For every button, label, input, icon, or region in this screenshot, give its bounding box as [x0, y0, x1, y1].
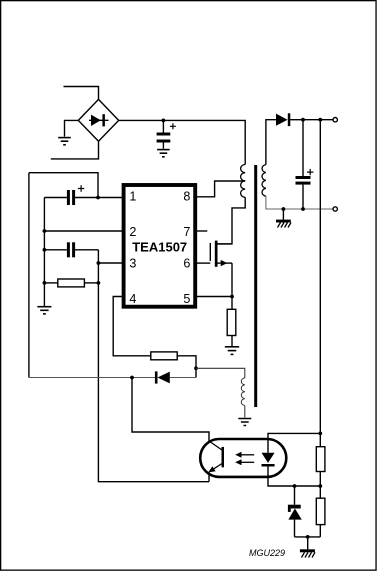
wire LED anode — [268, 433, 320, 452]
svg-text:5: 5 — [183, 292, 190, 306]
bridge rectifier — [78, 99, 118, 141]
transformer T1 primary winding — [241, 165, 246, 198]
wire divider column — [319, 120, 321, 434]
transformer auxiliary winding — [241, 378, 244, 406]
wire demag to aux winding — [196, 368, 245, 378]
wire primary bottom to drain — [217, 197, 245, 244]
node pin3 junction — [97, 261, 101, 265]
chassis ground secondary — [276, 209, 291, 228]
wire left bias column — [43, 198, 45, 307]
wire bottom node — [295, 536, 321, 538]
resistor R5 lower divider — [316, 486, 325, 537]
resistor R4 upper divider — [316, 433, 325, 486]
chassis ground bottom — [300, 537, 315, 558]
wire AC input stub bottom — [51, 141, 99, 159]
svg-text:7: 7 — [183, 225, 190, 239]
diode D1 demag — [132, 371, 196, 383]
svg-text:2: 2 — [129, 225, 136, 239]
wire pin 4 to R2 — [113, 297, 151, 356]
wire pin3 column down — [98, 263, 209, 482]
IC U1 TEA1507 — [124, 185, 196, 307]
resistor R2 — [151, 352, 177, 360]
node divider top — [318, 118, 322, 122]
node R1 left junction — [43, 281, 47, 285]
capacitor C2 Vcc electrolytic — [44, 185, 98, 205]
node pin2 junction — [43, 229, 47, 233]
svg-text:4: 4 — [129, 292, 136, 306]
wire secondary top to diode — [266, 120, 276, 165]
node source junction — [230, 295, 234, 299]
terminal output plus — [333, 118, 337, 122]
wire LED cathode to divider mid — [268, 467, 320, 487]
svg-text:MGU229: MGU229 — [249, 548, 285, 558]
svg-text:6: 6 — [183, 257, 190, 271]
optocoupler U2 — [200, 439, 286, 477]
MOSFET Q1 — [195, 241, 232, 297]
wire pin 5 — [195, 296, 232, 298]
wire bridge left to ground — [65, 120, 79, 136]
svg-text:1: 1 — [129, 190, 136, 204]
ground (aux winding) — [238, 419, 251, 426]
wire pin 7 stub — [195, 230, 208, 232]
svg-text:TEA1507: TEA1507 — [132, 239, 187, 254]
wire D1 node to opto collector — [132, 378, 209, 442]
wire HV rail — [119, 120, 246, 164]
node bottom ground junction — [306, 535, 310, 539]
node bulk cap junction — [162, 119, 166, 123]
node cap C3 left junction — [43, 248, 47, 252]
node output cap bottom — [301, 207, 305, 211]
wire pin 1 — [98, 197, 123, 199]
ground (bulk cap) — [157, 150, 170, 157]
ground (bridge left) — [58, 138, 71, 145]
capacitor C1 bulk electrolytic — [157, 120, 176, 148]
capacitor C4 output electrolytic — [296, 120, 314, 209]
svg-text:3: 3 — [129, 257, 136, 271]
wire opto emitter down — [208, 472, 210, 482]
node output cap top — [301, 118, 305, 122]
node R1 right junction — [97, 281, 101, 285]
resistor R3 sense — [227, 297, 236, 347]
capacitor C3 — [44, 242, 98, 257]
wire AC input stub top — [64, 87, 99, 100]
node secondary ground — [282, 207, 286, 211]
transformer core — [254, 165, 257, 407]
node divider mid top — [318, 432, 322, 436]
node divider mid — [318, 484, 322, 488]
node demag junction — [194, 366, 198, 370]
terminal output minus — [333, 207, 337, 211]
transformer secondary winding — [262, 165, 266, 197]
wire secondary bottom rail — [266, 196, 333, 209]
node pin1 junction — [96, 196, 100, 200]
zener diode ZD — [288, 486, 302, 537]
diode D2 secondary rectifier — [276, 113, 303, 126]
resistor R1 — [44, 279, 98, 287]
svg-text:8: 8 — [183, 190, 190, 204]
wire output plus rail — [303, 119, 333, 121]
wire left outer column — [28, 173, 30, 378]
wire C3 to pin 3 — [98, 250, 124, 263]
wire pin 2 — [44, 230, 124, 232]
ground (sense resistor) — [225, 347, 239, 355]
node D1 left junction — [130, 376, 134, 380]
wire primary tap to pin 8 — [195, 181, 246, 197]
wire R2 to demag node — [177, 356, 196, 378]
node zener top — [293, 484, 297, 488]
wire top feed to pin1 node — [29, 173, 98, 198]
ground (left bias column) — [37, 307, 51, 314]
wire aux winding to ground — [244, 406, 246, 418]
